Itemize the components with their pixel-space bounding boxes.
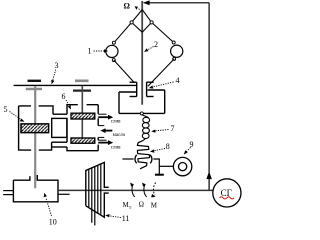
svg-text:8: 8	[166, 142, 170, 151]
sleeve 4 right bracket	[146, 82, 148, 96]
feedback wire vertical	[208, 3, 210, 191]
governor shaft 2	[141, 1, 143, 105]
T-head rod 5	[26, 88, 42, 91]
upper arm right	[152, 22, 174, 42]
link to dial 9	[159, 165, 173, 167]
svg-text:масло: масло	[113, 133, 126, 138]
yoke box under governor	[118, 92, 120, 113]
svg-text:слив: слив	[111, 120, 121, 125]
linkage diamond	[132, 10, 143, 23]
rotation arrow dashed	[138, 8, 142, 11]
damper 8 right jaw	[150, 155, 152, 164]
red spellcheck squiggle	[220, 197, 234, 199]
right pipe stub	[58, 193, 70, 195]
bottom duct lines	[52, 141, 67, 143]
flyweight pivots	[112, 41, 115, 44]
svg-text:1: 1	[88, 47, 92, 56]
svg-text:4: 4	[176, 76, 180, 85]
sleeve 4 left bracket	[136, 82, 138, 96]
valve right wall segments	[97, 105, 99, 151]
rod of valve 6	[81, 86, 83, 138]
svg-text:М: М	[151, 201, 158, 209]
damper 8 left jaw	[135, 155, 137, 164]
port 2 oil	[98, 125, 104, 127]
speed arrow Omega	[144, 184, 147, 197]
turbine 11 body upper	[86, 162, 109, 205]
T-head rod 6	[73, 89, 91, 91]
flyweight 1 left	[106, 45, 118, 57]
feedback wire horizontal	[148, 2, 209, 4]
cylinder 5 walls	[19, 106, 53, 150]
top duct	[53, 113, 67, 115]
svg-text:2: 2	[154, 40, 158, 49]
piston 5	[21, 124, 49, 133]
pivot on box bottom	[140, 112, 143, 115]
port 1 drain	[98, 113, 106, 115]
anchor bar	[155, 174, 164, 176]
svg-text:11: 11	[122, 214, 130, 223]
spring 7	[142, 115, 149, 118]
svg-text:3: 3	[55, 61, 59, 70]
flyweight right	[171, 45, 183, 57]
lower link left	[114, 60, 135, 83]
dial 9 double circle	[173, 157, 191, 175]
turbine shaft	[58, 189, 213, 191]
svg-text:слив: слив	[111, 146, 121, 151]
damper 8 serpentine	[137, 140, 149, 168]
port 3 drain	[98, 139, 106, 141]
left jaw link	[122, 158, 133, 160]
turbine blades	[89, 164, 101, 226]
valve upper piston	[71, 113, 95, 119]
servomotor box 10	[13, 175, 58, 202]
svg-text:6: 6	[62, 92, 66, 101]
right jaw link and anchor	[153, 159, 159, 175]
svg-text:5: 5	[4, 105, 8, 114]
generator SG circle	[213, 179, 241, 207]
svg-text:10: 10	[49, 217, 57, 226]
dash above lever (rod 5)	[28, 80, 42, 82]
turbine 11 body lower	[86, 193, 109, 217]
lever 3	[14, 84, 137, 86]
svg-text:Ω: Ω	[124, 2, 131, 11]
valve lower piston	[71, 138, 95, 143]
svg-text:Ω: Ω	[139, 201, 144, 209]
valve 6 housing	[67, 105, 98, 151]
load arrow M dashed	[153, 183, 155, 196]
left pipe stub	[3, 190, 13, 192]
dash above lever (rod 6)	[75, 80, 89, 83]
lower link right	[148, 59, 174, 86]
rod of piston 5	[34, 86, 36, 188]
transfer chamber	[52, 118, 67, 137]
torque arrow Mt	[132, 184, 135, 197]
upper arm left	[114, 22, 132, 42]
pivot joints	[130, 21, 133, 24]
up arrow on wire	[206, 172, 212, 180]
svg-text:7: 7	[171, 124, 175, 133]
